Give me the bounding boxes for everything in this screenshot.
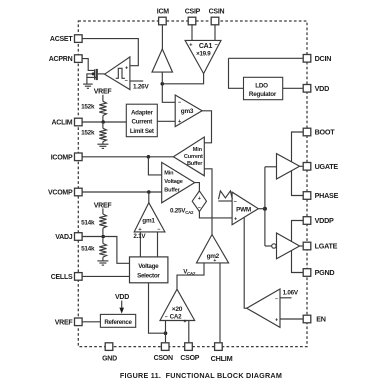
svg-text:514k: 514k <box>81 220 95 227</box>
svg-text:Selector: Selector <box>137 273 160 280</box>
svg-text:Buffer: Buffer <box>164 188 180 194</box>
svg-text:Voltage: Voltage <box>138 263 159 270</box>
svg-text:2.1V: 2.1V <box>133 233 146 240</box>
svg-text:CHLIM: CHLIM <box>211 354 233 363</box>
svg-text:−: − <box>234 199 237 205</box>
svg-text:−: − <box>125 78 128 84</box>
svg-text:−: − <box>198 205 201 211</box>
svg-text:ACPRN: ACPRN <box>49 56 73 63</box>
svg-text:LGATE: LGATE <box>315 242 338 251</box>
svg-text:Voltage: Voltage <box>164 179 182 185</box>
svg-text:1.26V: 1.26V <box>133 84 149 91</box>
svg-text:VREF: VREF <box>55 319 74 326</box>
svg-text:GND: GND <box>102 355 117 362</box>
svg-text:VCOMP: VCOMP <box>48 190 73 197</box>
svg-text:Reference: Reference <box>104 319 132 326</box>
svg-text:FIGURE 11. FUNCTIONAL BLOCK D: FIGURE 11. FUNCTIONAL BLOCK DIAGRAM <box>120 371 282 380</box>
svg-text:×20: ×20 <box>172 306 183 313</box>
svg-text:CA2: CA2 <box>170 313 182 320</box>
svg-text:VDD: VDD <box>315 84 329 93</box>
svg-text:ACSET: ACSET <box>50 36 73 43</box>
svg-text:VDD: VDD <box>115 294 129 301</box>
svg-text:ACLIM: ACLIM <box>51 120 72 127</box>
svg-text:1.06V: 1.06V <box>283 289 299 296</box>
svg-text:EN: EN <box>316 315 326 324</box>
svg-text:ICM: ICM <box>157 9 170 16</box>
svg-text:UGATE: UGATE <box>315 162 339 171</box>
svg-text:Min: Min <box>193 147 203 153</box>
svg-text:Limit Set: Limit Set <box>130 128 154 135</box>
svg-text:PHASE: PHASE <box>315 191 339 200</box>
svg-text:CA1: CA1 <box>199 43 213 50</box>
svg-text:152k: 152k <box>81 104 95 111</box>
svg-text:BOOT: BOOT <box>315 128 336 137</box>
svg-text:CSOP: CSOP <box>180 355 199 362</box>
svg-text:PWM: PWM <box>236 207 251 214</box>
svg-text:gm1: gm1 <box>142 218 155 225</box>
svg-text:−: − <box>275 296 278 302</box>
svg-text:Current: Current <box>131 119 152 126</box>
svg-text:CSIN: CSIN <box>209 9 225 16</box>
svg-text:+: + <box>213 258 216 264</box>
svg-text:VREF: VREF <box>94 89 113 96</box>
svg-text:VADJ: VADJ <box>55 234 73 241</box>
svg-text:−: − <box>178 100 181 106</box>
svg-text:×19.9: ×19.9 <box>196 51 211 58</box>
svg-text:DCIN: DCIN <box>315 54 332 63</box>
svg-text:PGND: PGND <box>315 268 335 277</box>
svg-text:CELLS: CELLS <box>51 274 73 281</box>
svg-text:Adapter: Adapter <box>131 109 153 116</box>
svg-text:VREF: VREF <box>94 202 113 209</box>
svg-text:Min: Min <box>164 170 174 176</box>
svg-text:+: + <box>184 319 187 325</box>
svg-text:+: + <box>275 317 278 323</box>
svg-text:Regulator: Regulator <box>249 91 277 98</box>
svg-text:VDDP: VDDP <box>315 216 334 225</box>
svg-text:ICOMP: ICOMP <box>51 154 73 161</box>
svg-text:+: + <box>125 66 128 72</box>
svg-text:+: + <box>198 196 201 202</box>
svg-text:−: − <box>165 314 168 320</box>
svg-text:+: + <box>178 119 181 125</box>
svg-text:gm3: gm3 <box>181 108 194 115</box>
svg-text:514k: 514k <box>81 245 95 252</box>
svg-text:Current: Current <box>184 154 203 160</box>
svg-text:−: − <box>157 227 160 233</box>
svg-text:−: − <box>215 43 218 49</box>
svg-text:152k: 152k <box>81 129 95 136</box>
svg-text:+: + <box>189 43 192 49</box>
svg-text:Buffer: Buffer <box>187 161 203 167</box>
svg-text:LDO: LDO <box>255 82 268 89</box>
svg-text:+: + <box>234 217 237 223</box>
svg-text:CSON: CSON <box>154 355 173 362</box>
svg-text:CSIP: CSIP <box>185 9 201 16</box>
